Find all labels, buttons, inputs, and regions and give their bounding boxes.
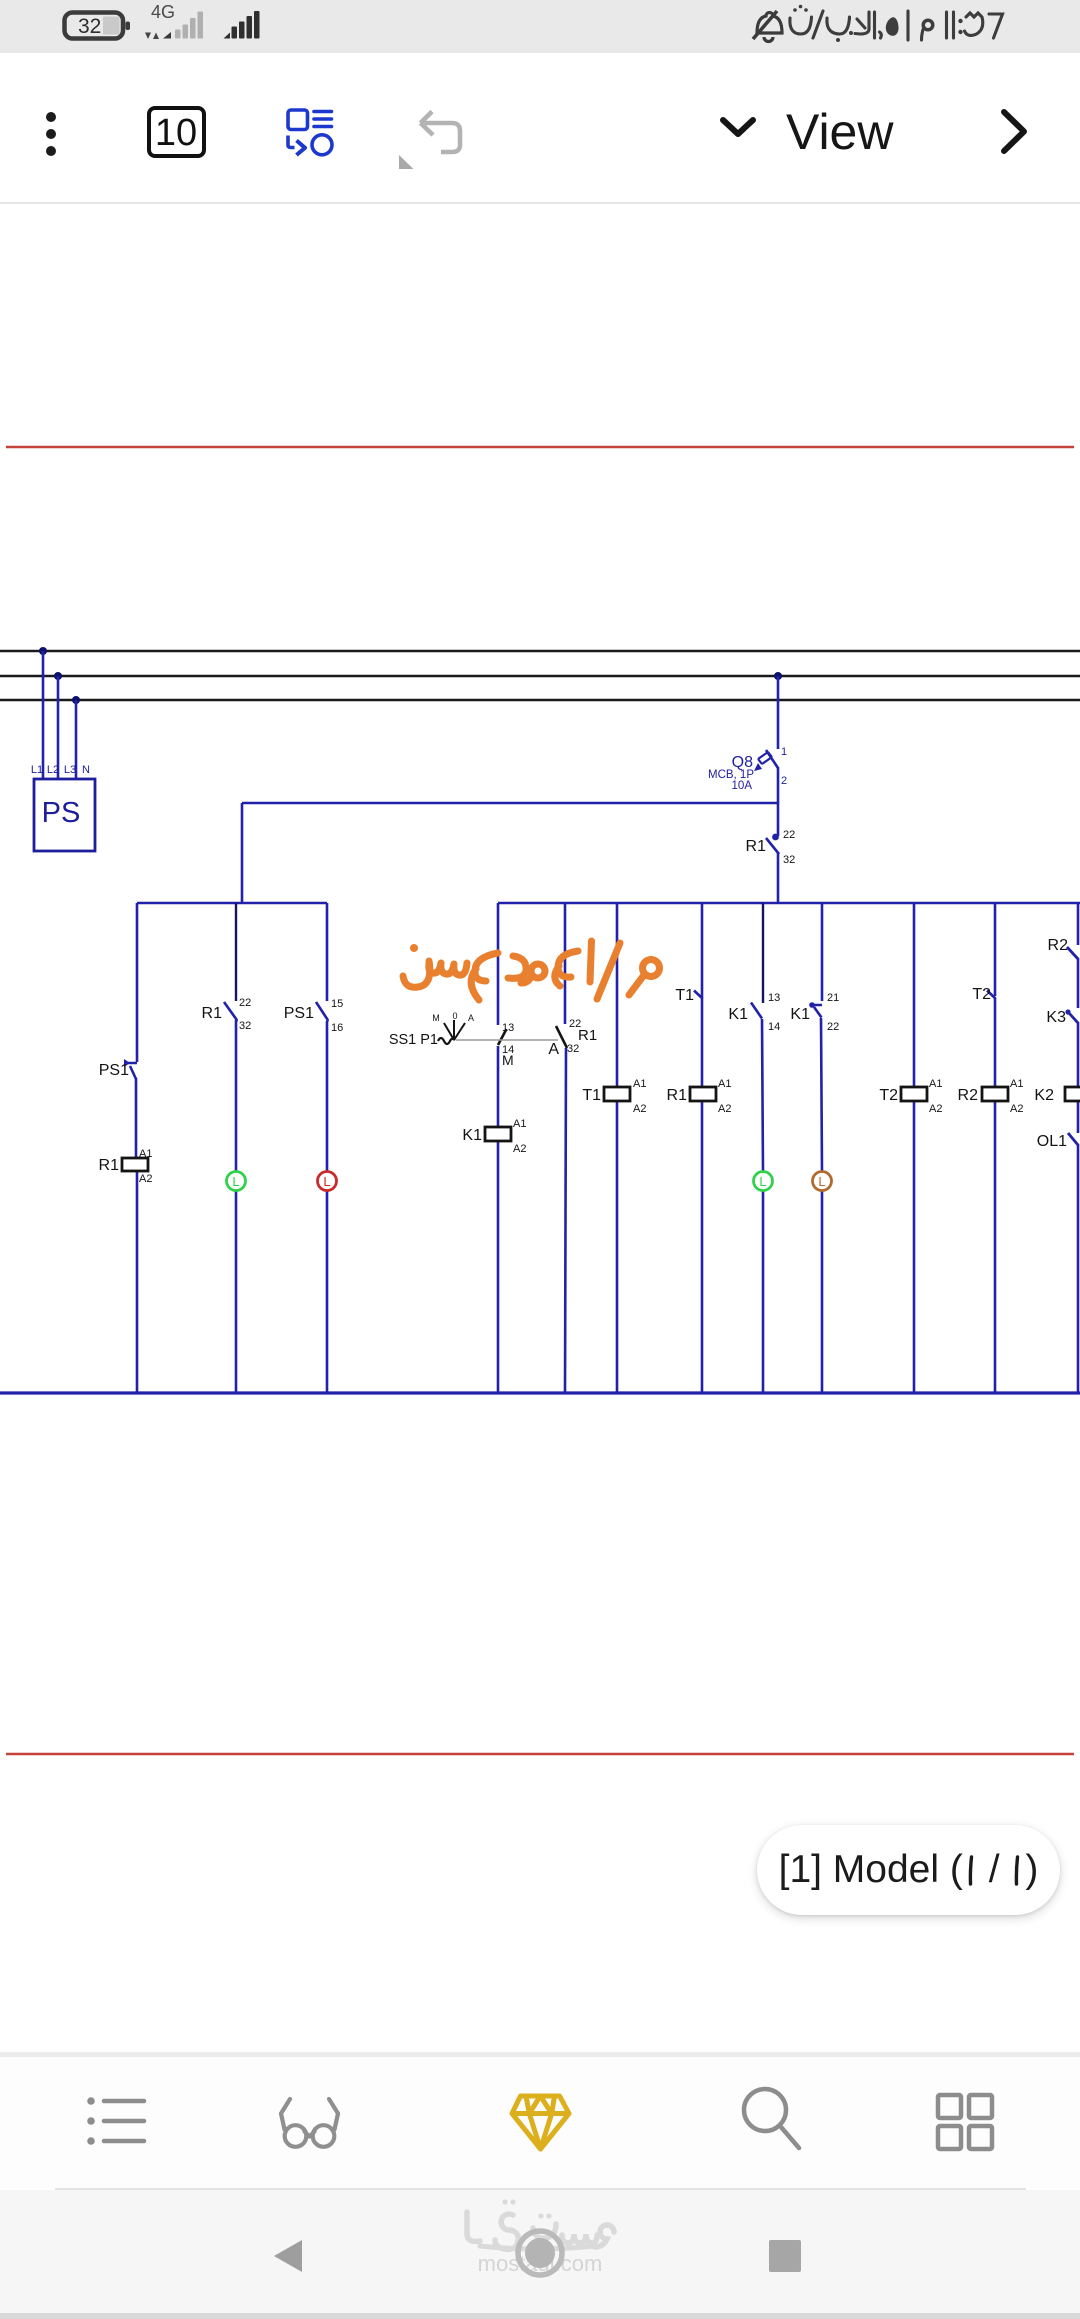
svg-text:M: M xyxy=(502,1052,514,1068)
svg-text:1: 1 xyxy=(781,746,787,758)
svg-text:R2: R2 xyxy=(1048,937,1069,954)
svg-text:SS1 P1: SS1 P1 xyxy=(389,1032,438,1048)
svg-text:R1: R1 xyxy=(578,1027,597,1044)
svg-text:15: 15 xyxy=(331,998,343,1010)
svg-text:N: N xyxy=(82,764,90,776)
svg-text:R1: R1 xyxy=(99,1157,120,1174)
svg-text:L: L xyxy=(818,1174,825,1189)
svg-text:T1: T1 xyxy=(675,987,694,1004)
svg-text:PS: PS xyxy=(42,797,81,829)
svg-text:PS1: PS1 xyxy=(284,1005,314,1022)
svg-text:R1: R1 xyxy=(202,1005,223,1022)
svg-text:2: 2 xyxy=(781,775,787,787)
svg-text:R1: R1 xyxy=(746,838,767,855)
svg-text:A: A xyxy=(548,1041,559,1058)
svg-text:A1: A1 xyxy=(513,1118,526,1130)
svg-text:13: 13 xyxy=(768,992,780,1004)
svg-text:32: 32 xyxy=(78,15,101,38)
svg-text:L1: L1 xyxy=(31,764,43,776)
svg-text:32: 32 xyxy=(567,1043,579,1055)
svg-text:K1: K1 xyxy=(790,1006,810,1023)
svg-text:R2: R2 xyxy=(958,1087,979,1104)
svg-text:A1: A1 xyxy=(718,1078,731,1090)
svg-text:A2: A2 xyxy=(718,1103,731,1115)
svg-text:13: 13 xyxy=(502,1022,514,1034)
svg-text:K2: K2 xyxy=(1034,1087,1054,1104)
svg-text:PS1: PS1 xyxy=(99,1062,129,1079)
svg-text:R1: R1 xyxy=(667,1087,688,1104)
svg-text:A2: A2 xyxy=(139,1173,152,1185)
svg-text:4G: 4G xyxy=(151,2,175,22)
svg-text:22: 22 xyxy=(827,1021,839,1033)
svg-text:32: 32 xyxy=(239,1020,251,1032)
svg-text:L3: L3 xyxy=(64,764,76,776)
svg-text:L: L xyxy=(232,1174,239,1189)
svg-text:A2: A2 xyxy=(633,1103,646,1115)
svg-text:L: L xyxy=(759,1174,766,1189)
svg-text:A: A xyxy=(468,1013,474,1023)
svg-text:22: 22 xyxy=(239,997,251,1009)
svg-text:T2: T2 xyxy=(972,986,991,1003)
svg-text:A1: A1 xyxy=(1010,1078,1023,1090)
svg-text:L2: L2 xyxy=(47,764,59,776)
svg-text:K1: K1 xyxy=(462,1127,482,1144)
svg-text:10A: 10A xyxy=(732,780,753,792)
svg-text:A2: A2 xyxy=(1010,1103,1023,1115)
svg-text:A2: A2 xyxy=(929,1103,942,1115)
svg-text:32: 32 xyxy=(783,854,795,866)
svg-text:OL1: OL1 xyxy=(1037,1133,1067,1150)
svg-text:A1: A1 xyxy=(139,1148,152,1160)
svg-text:A2: A2 xyxy=(513,1143,526,1155)
svg-text:T1: T1 xyxy=(582,1087,601,1104)
svg-text:K3: K3 xyxy=(1046,1009,1066,1026)
svg-text:M: M xyxy=(432,1013,440,1023)
svg-text:K1: K1 xyxy=(728,1006,748,1023)
svg-text:0: 0 xyxy=(452,1011,457,1021)
svg-text:21: 21 xyxy=(827,992,839,1004)
svg-text:View: View xyxy=(786,104,894,160)
svg-text:10: 10 xyxy=(155,112,197,154)
svg-text:L: L xyxy=(323,1174,330,1189)
svg-text:22: 22 xyxy=(783,829,795,841)
svg-text:16: 16 xyxy=(331,1022,343,1034)
svg-text:T2: T2 xyxy=(879,1087,898,1104)
svg-text:14: 14 xyxy=(768,1021,780,1033)
svg-text:A1: A1 xyxy=(633,1078,646,1090)
svg-text:A1: A1 xyxy=(929,1078,942,1090)
